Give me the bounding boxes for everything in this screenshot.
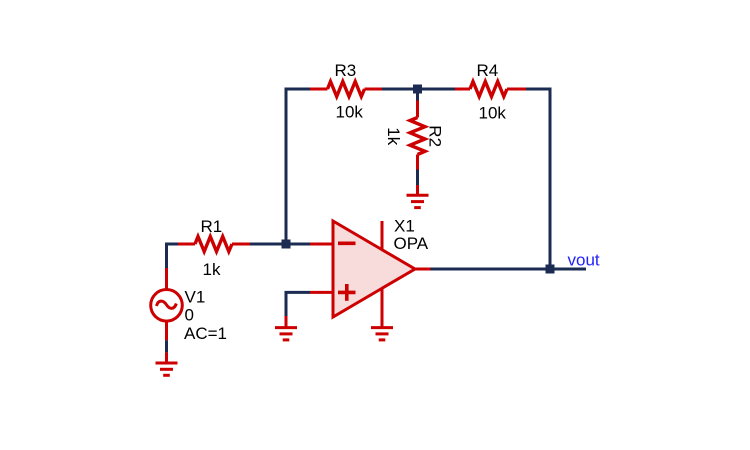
node junction top — [413, 85, 422, 94]
node junction vout — [546, 265, 555, 274]
svg-text:AC=1: AC=1 — [184, 324, 227, 343]
wire R2 to ground — [416, 170, 419, 186]
svg-text:R1: R1 — [201, 217, 223, 236]
wire feedback left vertical and top run to R3 — [286, 89, 310, 244]
ground under R2 — [407, 195, 429, 207]
op-amp U1 triangle — [333, 221, 415, 317]
svg-text:1k: 1k — [384, 127, 403, 145]
resistor R4 — [455, 82, 526, 97]
op-amp non-inverting input lead — [310, 291, 333, 294]
ground at non-inverting input — [275, 328, 297, 340]
resistor R3 — [310, 82, 382, 97]
svg-text:1k: 1k — [203, 260, 221, 279]
svg-text:R3: R3 — [335, 61, 357, 80]
wire R1 to node — [250, 243, 286, 246]
op-amp V- pin — [381, 288, 384, 326]
svg-text:R2: R2 — [425, 125, 444, 147]
svg-text:X1: X1 — [394, 217, 415, 236]
svg-text:10k: 10k — [479, 104, 507, 123]
svg-text:10k: 10k — [336, 103, 364, 122]
op-amp V+ pin — [381, 221, 384, 250]
wire V1 to ground — [165, 340, 168, 352]
ground under V1 — [156, 363, 178, 375]
svg-text:vout: vout — [568, 250, 600, 269]
svg-text:V1: V1 — [185, 288, 206, 307]
wire node to R4 — [422, 88, 455, 91]
svg-text:0: 0 — [185, 306, 194, 325]
wire node to R2 — [416, 93, 419, 101]
resistor R1 — [178, 237, 250, 252]
op-amp minus symbol — [338, 242, 356, 246]
wire output to vout node and stub — [431, 268, 587, 271]
op-amp plus symbol — [338, 291, 356, 295]
op-amp inverting input lead — [310, 243, 333, 246]
node junction inverting input — [282, 240, 291, 249]
wire node to op-amp — [291, 243, 311, 246]
ground at op-amp V- — [371, 328, 393, 340]
resistor R2 — [410, 101, 425, 170]
wire non-inverting to ground corner — [286, 292, 310, 316]
wire R3 to node — [382, 88, 417, 91]
wire V1 corner to R1 — [167, 244, 179, 268]
svg-text:OPA: OPA — [394, 234, 429, 253]
voltage source V1 — [151, 268, 183, 340]
op-amp output lead — [414, 268, 431, 271]
svg-text:R4: R4 — [477, 61, 499, 80]
wire R4 to right vertical down to output node — [526, 89, 550, 269]
